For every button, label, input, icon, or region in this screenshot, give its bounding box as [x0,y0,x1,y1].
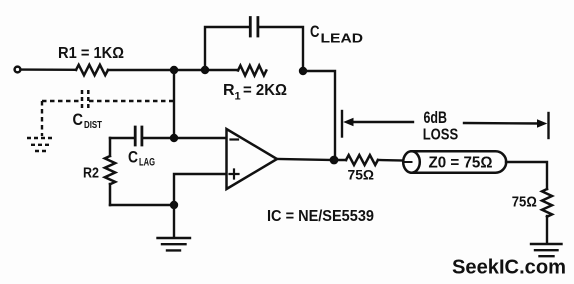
wire plus input [174,174,227,205]
wire C_LAG right [142,137,227,139]
capacitor C_LAG [135,127,142,145]
node junction bottom [170,201,178,209]
wire dashed C_DIST right [89,100,174,102]
resistor 75Ω series [346,155,378,165]
ground middle [158,205,191,250]
svg-text:R1 = 1KΩ: R1 = 1KΩ [58,45,124,62]
svg-text:= 2KΩ: = 2KΩ [243,82,287,99]
op-amp inverting input mark [231,138,239,140]
wire coax to right load [506,162,547,189]
node junction output [330,156,339,165]
svg-text:DIST: DIST [84,119,102,131]
svg-text:IC = NE/SE5539: IC = NE/SE5539 [267,208,374,225]
resistor R1 = 2K [238,66,266,76]
svg-text:C: C [310,22,320,41]
dashed ground [27,138,55,151]
svg-text:SeekIC.com: SeekIC.com [452,256,566,278]
resistor R1 [76,65,108,75]
svg-text:R2: R2 [83,164,99,181]
capacitor C_DIST (dashed) [82,90,88,111]
svg-text:LEAD: LEAD [321,31,364,46]
wire op-amp output [277,159,334,160]
svg-text:75Ω: 75Ω [512,195,537,211]
ground right [531,244,562,256]
resistor R2 [105,138,115,205]
node junction C_LAG/minus [170,134,178,142]
svg-text:Z0 = 75Ω: Z0 = 75Ω [429,155,493,172]
wire dashed C_DIST left [42,100,81,102]
dimension tick right [547,113,549,138]
wire C_LAG left [110,137,135,139]
wire CLEAD loop left+top [205,27,250,70]
coax Z0 cylinder [412,151,507,172]
svg-text:1: 1 [235,91,241,103]
capacitor C_LEAD [250,18,258,37]
resistor 75Ω load [542,189,552,217]
wire vertical main to minus node [173,70,175,138]
svg-text:C: C [73,110,84,129]
node junction main/left vertical [170,66,178,74]
svg-text:75Ω: 75Ω [348,166,375,182]
wire dashed ground vertical [41,101,43,136]
svg-text:R: R [223,82,235,99]
op-amp non-inverting input mark [230,170,239,179]
wire input to R1 [21,68,76,71]
wire R1 to R1(2K) [108,69,238,71]
svg-text:6dB: 6dB [424,108,448,127]
wire R2 bottom [110,204,174,206]
wire CLEAD loop top right+down [258,27,303,71]
wire top branch to output node [303,71,335,160]
node junction main/CLEAD loop [201,66,209,74]
input terminal [15,67,21,73]
svg-text:C: C [128,148,138,167]
dimension line 6dB LOSS [349,122,541,124]
svg-text:LOSS: LOSS [423,126,459,143]
svg-text:LAG: LAG [139,157,155,169]
dimension tick left [341,111,343,137]
op-amp U1 [227,129,278,189]
node junction CLEAD/output branch [299,67,307,75]
